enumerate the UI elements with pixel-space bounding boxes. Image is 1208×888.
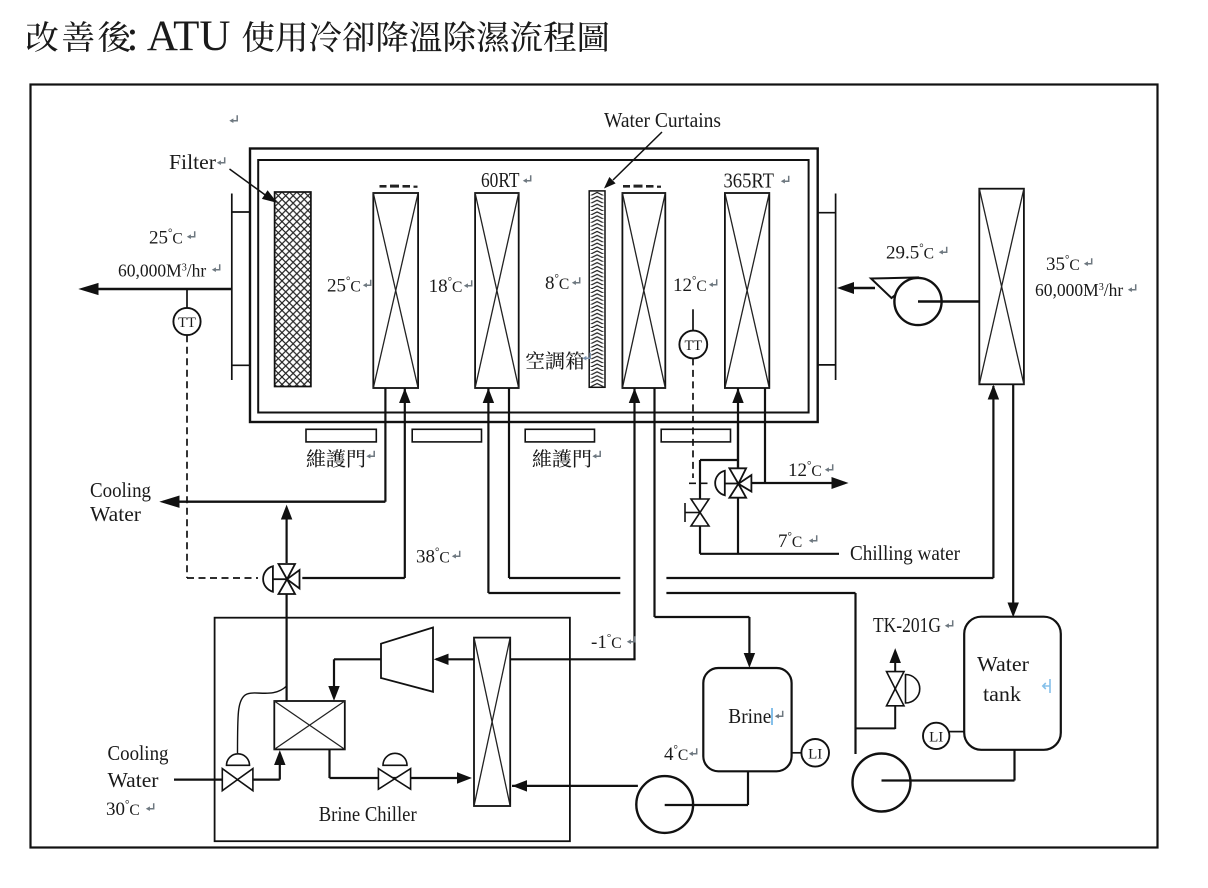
svg-text:TT: TT <box>684 338 702 354</box>
svg-text:Filter: Filter <box>169 150 216 174</box>
svg-text:Water Curtains: Water Curtains <box>604 108 721 132</box>
svg-text:-1°C: -1°C <box>591 632 622 653</box>
svg-text:Brine: Brine <box>728 704 771 728</box>
svg-text:Brine Chiller: Brine Chiller <box>319 802 417 826</box>
svg-text:Water: Water <box>90 502 141 526</box>
svg-text:25°C: 25°C <box>149 228 183 249</box>
svg-text:Water: Water <box>977 652 1029 676</box>
svg-text:: ATU: : ATU <box>127 13 231 60</box>
svg-text:Chilling water: Chilling water <box>850 541 960 565</box>
svg-text:Cooling: Cooling <box>108 741 169 765</box>
svg-text:29.5°C: 29.5°C <box>886 243 934 264</box>
svg-text:tank: tank <box>983 682 1021 706</box>
svg-text:30°C: 30°C <box>106 799 140 820</box>
svg-text:Water: Water <box>108 768 159 792</box>
svg-text:60RT: 60RT <box>481 168 520 192</box>
svg-text:LI: LI <box>929 729 943 745</box>
svg-text:365RT: 365RT <box>724 169 775 193</box>
svg-text:25°C: 25°C <box>327 276 361 297</box>
svg-text:60,000M3/hr: 60,000M3/hr <box>118 261 206 281</box>
svg-text:60,000M3/hr: 60,000M3/hr <box>1035 280 1123 300</box>
svg-text:LI: LI <box>808 746 822 762</box>
svg-text:TK-201G: TK-201G <box>873 613 941 637</box>
svg-text:18°C: 18°C <box>429 276 463 297</box>
svg-text:35°C: 35°C <box>1046 254 1080 275</box>
svg-text:12°C: 12°C <box>673 275 707 296</box>
svg-text:Cooling: Cooling <box>90 478 151 502</box>
svg-text:12°C: 12°C <box>788 460 822 481</box>
svg-text:38°C: 38°C <box>416 547 450 568</box>
svg-text:TT: TT <box>178 315 196 331</box>
